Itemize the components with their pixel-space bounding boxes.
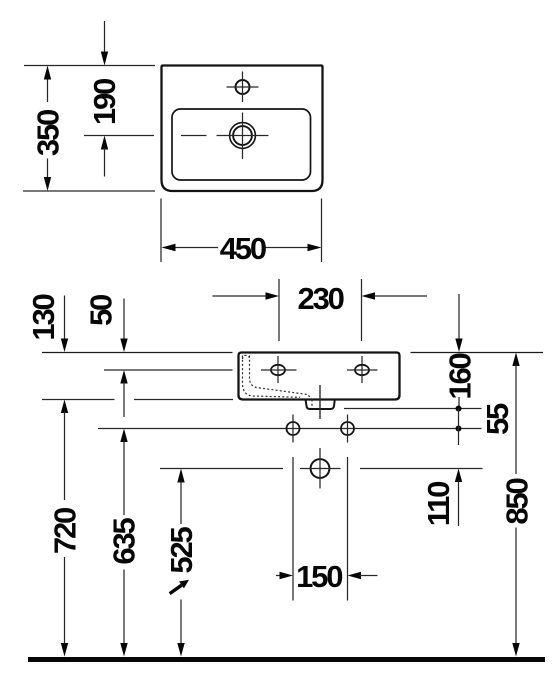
dimension 635 bottom arrow (120, 643, 127, 657)
siphon centre line (160, 468, 483, 470)
dimension 525 top arrow (177, 469, 184, 483)
line at fixing bolts row (98, 428, 482, 430)
wall / top mounting line, right of basin (411, 352, 544, 354)
fixing-hole centre line (50 below rim) (104, 369, 233, 371)
svg-text:160: 160 (443, 353, 478, 399)
tap hole (236, 80, 250, 94)
dimension 720 bottom arrow (61, 643, 68, 657)
adjustable-height diagonal arrow near 525 (170, 580, 189, 594)
leader from label to first point (458, 397, 460, 409)
point at 160 (456, 406, 462, 412)
dimension 720 top arrow (tip on basin bottom line) (61, 400, 68, 414)
dimension 110 arrow + leader (455, 469, 462, 483)
drain crosshair (217, 113, 269, 160)
drain (plan view) outer circle (230, 123, 256, 149)
dimension 190: upper leader (104, 21, 106, 53)
siphon outlet circle (311, 459, 330, 478)
svg-text:350: 350 (31, 110, 66, 156)
inner basin outline (plan view) (172, 109, 311, 180)
dimension 525 bottom arrow (177, 643, 184, 657)
dimension 635 lower line (123, 570, 125, 646)
arrow up (190 bottom, tip on centre line) (101, 136, 108, 150)
drain stub below basin (306, 400, 335, 410)
svg-text:850: 850 (500, 478, 535, 524)
svg-text:450: 450 (220, 231, 266, 266)
dimension 230 extension lines (279, 279, 362, 341)
dimension 450 line (173, 247, 309, 249)
dimension 525 upper line (180, 481, 182, 524)
svg-text:230: 230 (298, 281, 344, 316)
arrow left (450) (162, 244, 176, 251)
dimension 230 right leader + arrow (362, 292, 376, 299)
washbasin body (front view) (239, 353, 400, 400)
dimension 50 lower arrow (tip on fixing-hole line) + stem (120, 370, 127, 384)
arrow up (350 top) (44, 66, 51, 80)
drain inner circle (233, 126, 252, 145)
dimension 850 lower line (515, 528, 517, 646)
dimension 850 upper line (515, 364, 517, 474)
svg-text:525: 525 (164, 526, 199, 573)
dimension 50 upper leader + arrow (123, 299, 125, 341)
svg-text:55: 55 (480, 403, 515, 435)
centre dash left of drain (181, 135, 207, 137)
floor line (28, 657, 545, 662)
svg-text:720: 720 (48, 508, 83, 554)
dimension 450 extension lines (161, 199, 322, 263)
dimension 190 lower leader (104, 148, 106, 177)
svg-text:110: 110 (421, 482, 456, 526)
point at 55 below (456, 426, 462, 432)
dimension 635 top arrow (120, 429, 127, 443)
left wall bolt circle (287, 422, 300, 435)
dimension 130 upper leader + arrow (64, 296, 66, 341)
line at 160 below rim (bottom of drain stub) (344, 408, 482, 410)
hidden profile (dashed): rim top connector (243, 355, 250, 359)
dimension 525 lower line (180, 600, 182, 646)
dimension 850 top arrow (tip on wall line) (512, 353, 519, 367)
svg-text:635: 635 (107, 517, 142, 564)
dimension 160 upper leader + arrow (458, 294, 460, 340)
basin bottom edge extended left (two segments) (42, 399, 115, 401)
leader between / below points (458, 409, 460, 446)
dimension 850 bottom arrow (512, 643, 519, 657)
wall / top mounting line, left of basin (42, 352, 233, 354)
extension line at tap/drain centre height (84, 135, 154, 137)
siphon crosshair (300, 448, 341, 489)
svg-text:150: 150 (296, 559, 342, 594)
arrow right (450) (308, 244, 322, 251)
extension lines from bolts down to 150 dimension (293, 457, 348, 601)
dimension 230 left leader + arrow (213, 295, 268, 297)
right fixing hole (front view) (355, 365, 369, 375)
dimension 635 upper line (123, 441, 125, 516)
hidden profile (dashed): back wall inner (250, 356, 312, 399)
right wall bolt circle (341, 422, 354, 435)
hidden drain dashes inside stub (311, 400, 313, 409)
dimension 150 left leader + arrow (276, 575, 281, 577)
left fixing hole (front view) (271, 365, 285, 375)
extension line: top edge of basin extended left (24, 65, 155, 67)
washbasin outline (plan view) (162, 66, 323, 192)
extension line: bottom edge of basin extended left (23, 190, 155, 192)
tap hole crosshair (227, 72, 259, 103)
hidden profile (dashed): back wall outer (243, 356, 301, 398)
arrow down (190 top, tip on top edge line) (101, 52, 108, 66)
dimension 720 upper line (64, 412, 66, 501)
svg-text:130: 130 (26, 294, 61, 340)
dimension 150 right leader + arrow (348, 572, 362, 579)
arrow down (350 bottom) (44, 177, 51, 191)
dimension 720 lower line (64, 557, 66, 645)
drain centre line (front view) (319, 385, 321, 419)
dimension 350 vertical line (47, 78, 49, 179)
svg-text:50: 50 (84, 295, 119, 326)
svg-text:190: 190 (87, 79, 122, 125)
